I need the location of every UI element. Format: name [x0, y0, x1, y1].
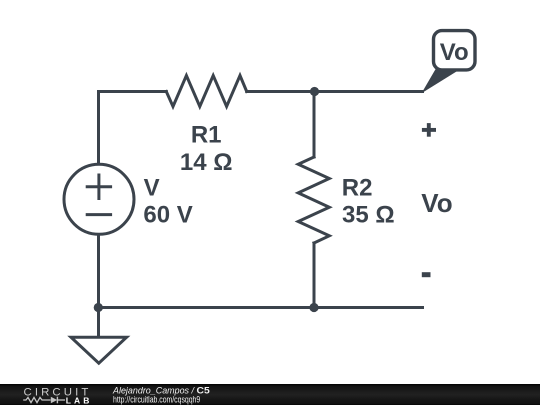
node junction at R1/R2 top — [310, 87, 319, 96]
resistor R1 — [166, 76, 246, 107]
wire ground stub — [97, 308, 100, 337]
wire bottom horizontal — [99, 306, 423, 309]
wire source bottom — [97, 233, 100, 308]
wire node down to R2 — [313, 92, 316, 158]
logo resistor zigzag — [23, 397, 50, 402]
logo diode — [51, 397, 57, 404]
svg-text:35 Ω: 35 Ω — [342, 201, 395, 228]
svg-text:14 Ω: 14 Ω — [180, 149, 233, 176]
svg-text:R2: R2 — [342, 175, 373, 202]
voltage source plus sign — [87, 185, 110, 188]
svg-text:Vo: Vo — [440, 39, 469, 66]
svg-text:http://circuitlab.com/cqsqqh9: http://circuitlab.com/cqsqqh9 — [113, 395, 200, 405]
wire top-left vertical — [97, 92, 100, 166]
ground symbol — [71, 337, 127, 363]
wire R1 to node — [247, 90, 315, 93]
voltage source V circle — [64, 164, 134, 234]
resistor R2 — [298, 157, 329, 243]
wire R2 to bottom — [313, 243, 316, 308]
annotation plus — [422, 123, 436, 137]
node junction at source bottom — [94, 303, 103, 312]
svg-text:60 V: 60 V — [143, 201, 192, 228]
wire top-left horizontal — [99, 90, 167, 93]
flag Vo box — [434, 31, 476, 70]
flag pointer tail — [422, 68, 457, 94]
footer bar — [0, 384, 540, 405]
svg-text:R1: R1 — [191, 122, 222, 149]
svg-text:LAB: LAB — [66, 395, 90, 405]
node junction at R2 bottom — [309, 303, 318, 312]
svg-text:Vo: Vo — [421, 188, 452, 218]
annotation minus — [422, 272, 431, 277]
voltage source minus sign — [87, 213, 110, 216]
svg-text:V: V — [144, 175, 160, 202]
wire node to flag — [315, 90, 423, 93]
